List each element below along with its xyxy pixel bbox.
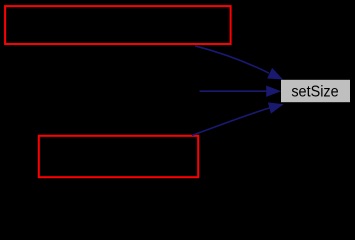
svg-text:setSize: setSize [291, 83, 338, 100]
